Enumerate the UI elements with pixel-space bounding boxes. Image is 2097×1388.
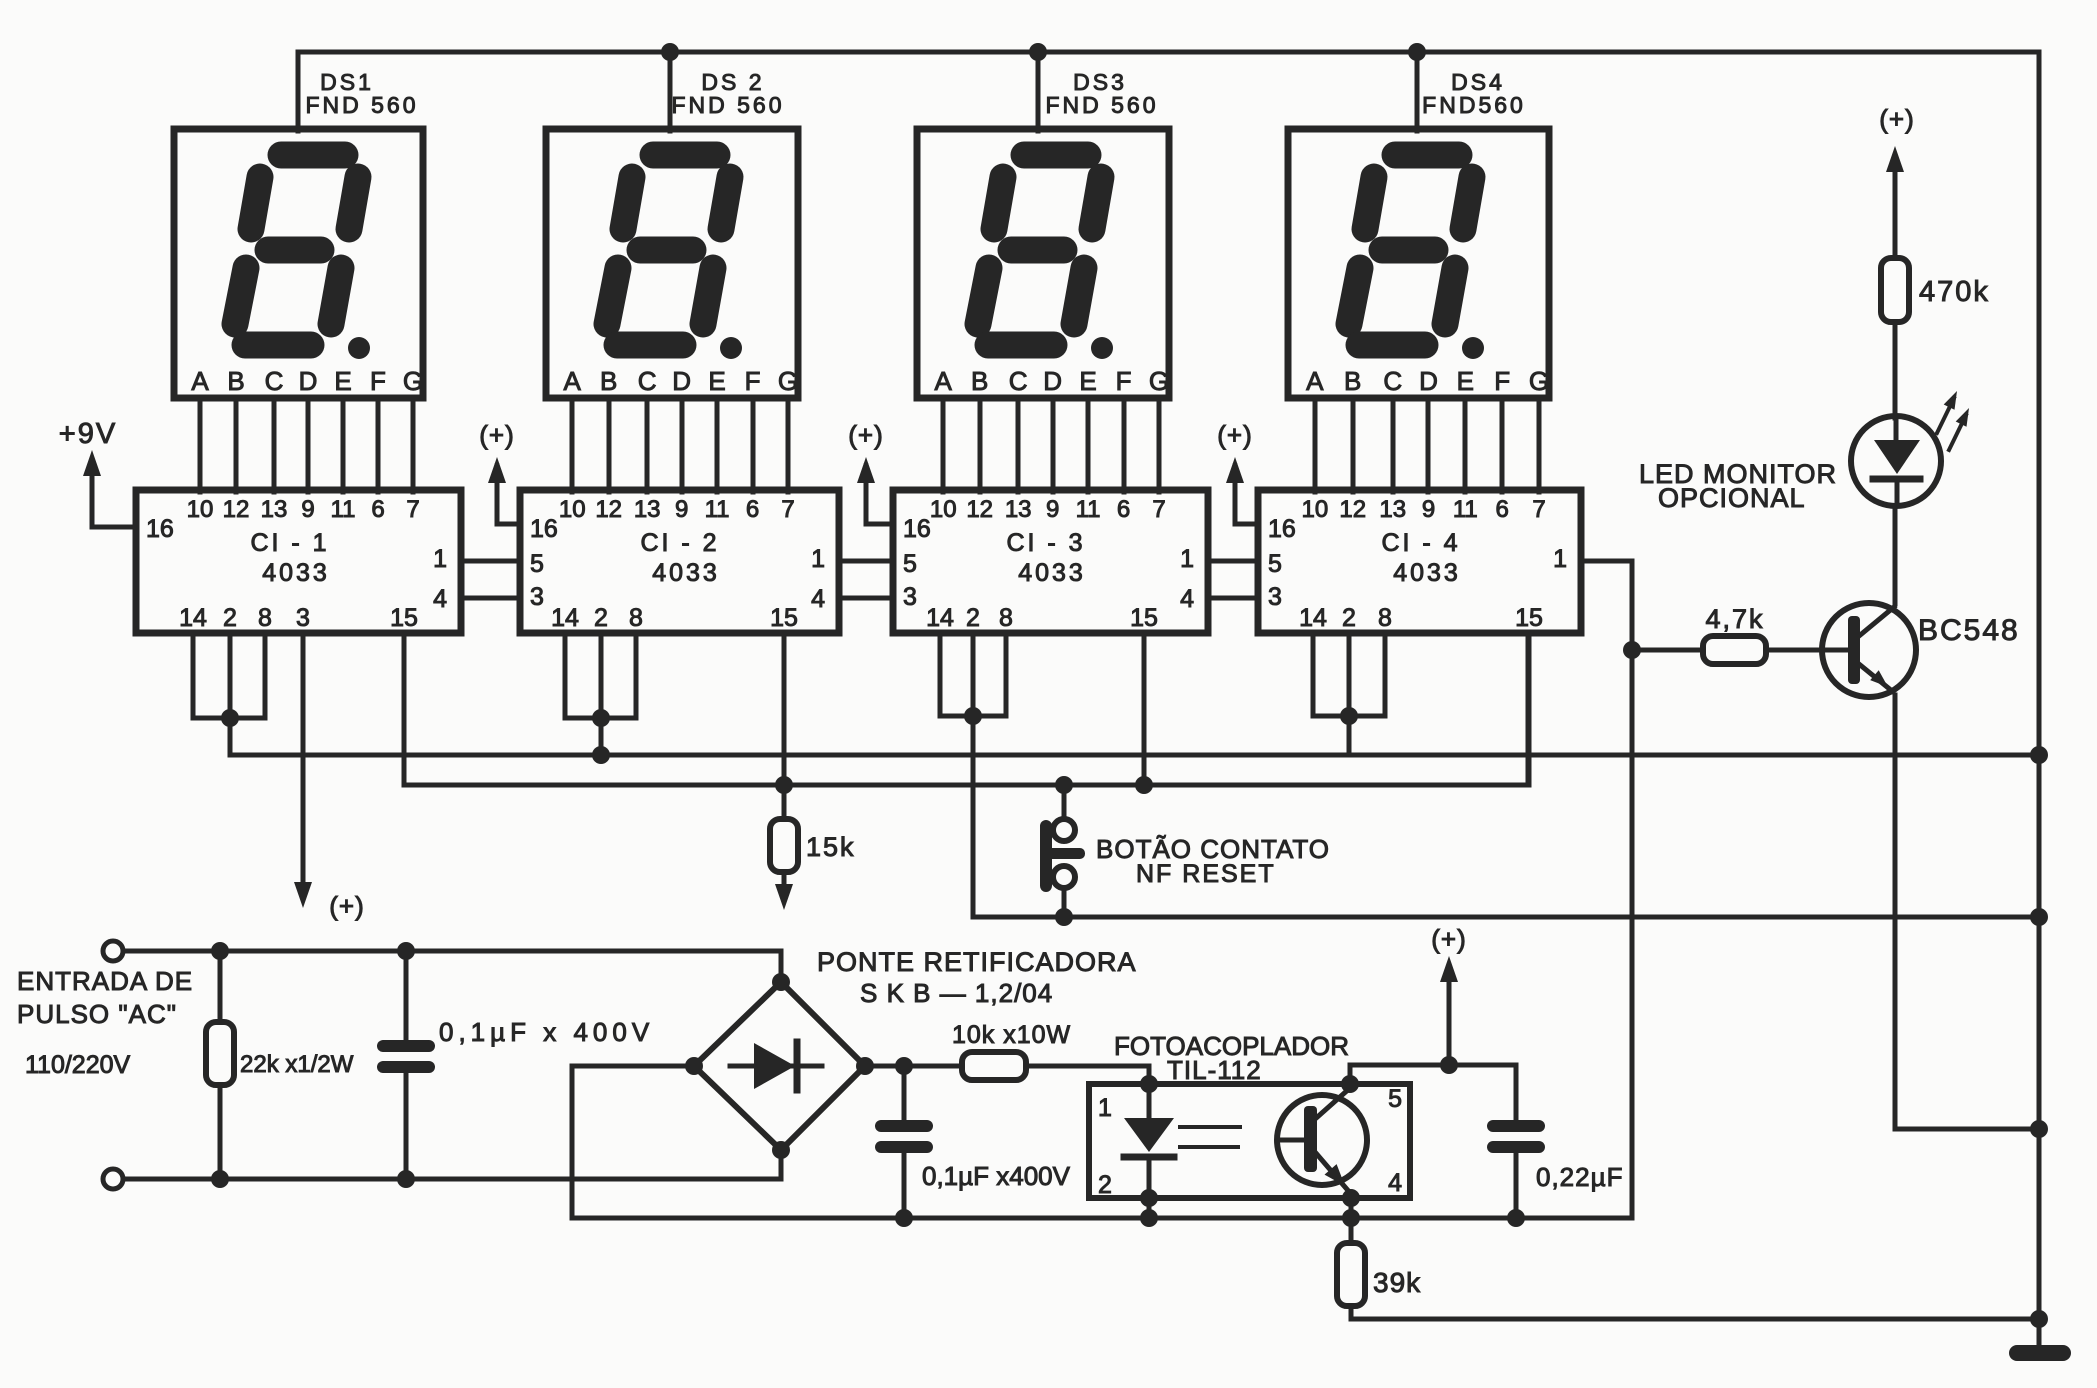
svg-text:1: 1 — [1098, 1094, 1112, 1122]
node CI-2 pin15 on reset bus — [775, 776, 793, 794]
display DS3 segment pin letters A-G — [935, 366, 1170, 396]
wire top supply rail — [298, 50, 2039, 55]
transistor BC548 circle — [1822, 603, 1916, 697]
arrow (+) up at opto — [1440, 956, 1458, 982]
svg-text:11: 11 — [705, 496, 730, 523]
svg-text:11: 11 — [1453, 496, 1478, 523]
IC CI-2 top pin numbers — [559, 496, 795, 523]
wire C3 bottom stem — [1514, 1153, 1519, 1218]
svg-text:5: 5 — [1268, 550, 1282, 578]
svg-text:16: 16 — [146, 515, 174, 543]
svg-text:BC548: BC548 — [1918, 614, 2020, 647]
svg-text:2: 2 — [1098, 1171, 1112, 1199]
svg-text:B: B — [600, 366, 617, 396]
wire CI-3 pin14 down — [938, 633, 943, 716]
bridge rectifier SKB diamond — [694, 982, 865, 1150]
svg-text:E: E — [334, 366, 351, 396]
node (+) tap — [1440, 1056, 1458, 1074]
svg-text:4: 4 — [433, 585, 447, 613]
display DS1 seven-segment digit 8 with dp — [235, 155, 358, 345]
svg-text:8: 8 — [1378, 604, 1392, 632]
wire 4,7k to base — [1766, 648, 1849, 653]
svg-text:2: 2 — [966, 604, 980, 632]
node opto collector exit pin5 — [1341, 1075, 1359, 1093]
node junction DS2 stub — [661, 43, 679, 61]
svg-text:NF RESET: NF RESET — [1136, 860, 1276, 888]
pushbutton plunger bar — [1040, 820, 1052, 892]
node C2 bottom on lower rail — [895, 1209, 913, 1227]
svg-text:A: A — [935, 366, 953, 396]
arrow 15k down — [775, 884, 793, 910]
arrow (+) up — [857, 457, 875, 483]
node CI-3 pins 14-2-8 junction — [964, 707, 982, 725]
svg-text:10k x10W: 10k x10W — [952, 1021, 1071, 1049]
svg-text:7: 7 — [1532, 496, 1545, 523]
node 4,7k tap — [1623, 641, 1641, 659]
svg-text:B: B — [1344, 366, 1361, 396]
node CI-4 pins 14-2-8 junction — [1340, 707, 1358, 725]
wire BC548 collector up to LED — [1893, 506, 1898, 604]
node emitter net right rail — [2030, 1120, 2048, 1138]
svg-text:D: D — [299, 366, 318, 396]
wire pin4 to pin3 interconnect — [839, 596, 893, 601]
wire 15k top stem — [782, 785, 787, 819]
display DS4 FND560 box — [1288, 129, 1549, 398]
svg-text:B: B — [227, 366, 244, 396]
node opto emitter on lower rail — [1342, 1209, 1360, 1227]
wire pin4 to pin3 interconnect — [461, 596, 520, 601]
led monitor circle — [1851, 416, 1941, 506]
node opto pin 1 — [1140, 1075, 1158, 1093]
svg-text:A: A — [1306, 366, 1324, 396]
svg-text:OPCIONAL: OPCIONAL — [1658, 483, 1806, 513]
svg-text:14: 14 — [926, 604, 954, 632]
bridge diode triangle — [754, 1043, 795, 1089]
wire 10k to opto pin1 — [1026, 1066, 1149, 1083]
node 22k top — [211, 942, 229, 960]
display DS4 seven-segment digit 8 with dp — [1349, 155, 1472, 345]
wire pin1 to pin5 interconnect — [839, 559, 893, 564]
display DS3 segment wires to IC — [943, 398, 1159, 492]
display DS1 segment wires to IC — [200, 398, 413, 492]
wire C1 bottom stem — [404, 1073, 409, 1179]
svg-text:D: D — [1419, 366, 1438, 396]
svg-text:PONTE RETIFICADORA: PONTE RETIFICADORA — [817, 947, 1137, 977]
svg-text:4033: 4033 — [262, 559, 330, 587]
svg-text:39k: 39k — [1373, 1267, 1421, 1298]
svg-text:12: 12 — [223, 496, 250, 523]
display DS4 segment pin letters A-G — [1306, 366, 1549, 396]
svg-text:9: 9 — [301, 496, 314, 523]
svg-text:G: G — [1529, 366, 1549, 396]
wire stub to DS2 — [668, 52, 673, 131]
wire bottom reset return — [973, 915, 2039, 920]
led triangle — [1874, 440, 1920, 474]
led anode stem — [1894, 416, 1899, 442]
opto phototransistor base lead — [1278, 1138, 1304, 1143]
svg-text:15: 15 — [390, 604, 418, 632]
wire 39k bottom stem — [1349, 1306, 1354, 1319]
wire 470k to (+) — [1893, 172, 1898, 258]
node cap C1 bottom — [397, 1170, 415, 1188]
wire pin4 to pin3 interconnect — [1208, 596, 1258, 601]
wire CI-4 pin1 out and down — [1581, 561, 1632, 1218]
svg-text:6: 6 — [1495, 496, 1508, 523]
wire CI-3 pins 14-8 link — [940, 714, 1006, 719]
svg-text:13: 13 — [1379, 496, 1406, 523]
led light arrow 1 — [1937, 398, 1954, 433]
node junction DS3 stub — [1029, 43, 1047, 61]
svg-text:FND 560: FND 560 — [671, 92, 784, 118]
bridge diode cathode bar — [794, 1042, 801, 1090]
capacitor C3 0,22uF plates — [1487, 1120, 1545, 1132]
pushbutton top contact — [1053, 819, 1075, 841]
svg-text:10: 10 — [1301, 496, 1328, 523]
display DS1 FND560 box — [174, 129, 423, 398]
svg-text:16: 16 — [1268, 515, 1296, 543]
node reset button tap on bus B — [1055, 776, 1073, 794]
node ground run right rail — [2030, 1310, 2048, 1328]
svg-text:E: E — [708, 366, 725, 396]
wire opto pin2 to lower rail — [1147, 1198, 1152, 1218]
resistor 4,7k body — [1703, 636, 1766, 664]
svg-text:14: 14 — [179, 604, 207, 632]
opto phototransistor emitter — [1315, 1152, 1351, 1194]
node reset return right rail junction — [2030, 908, 2048, 926]
wire 15k bottom stem — [782, 872, 787, 884]
ground symbol — [2009, 1345, 2071, 1361]
node reset button bottom on return wire — [1055, 908, 1073, 926]
svg-text:16: 16 — [530, 515, 558, 543]
IC CI-4 top pin numbers — [1301, 496, 1545, 523]
node opto pin2 on lower rail — [1140, 1209, 1158, 1227]
wire ground run — [1351, 1317, 2039, 1322]
svg-text:5: 5 — [530, 550, 544, 578]
svg-text:15: 15 — [770, 604, 798, 632]
svg-text:PULSO "AC": PULSO "AC" — [17, 999, 177, 1029]
arrow CI-1 pin3 down (+) — [294, 882, 312, 908]
node bridge left — [685, 1057, 703, 1075]
svg-text:B: B — [971, 366, 988, 396]
svg-text:16: 16 — [903, 515, 931, 543]
svg-text:C: C — [638, 366, 657, 396]
pushbutton actuator bar — [1040, 848, 1085, 859]
display DS4 segment wires to IC — [1315, 398, 1539, 492]
svg-text:2: 2 — [1342, 604, 1356, 632]
svg-text:4033: 4033 — [1018, 559, 1086, 587]
wire LED to 470k — [1893, 322, 1898, 418]
IC CI-4 4033 box — [1258, 490, 1581, 633]
svg-text:13: 13 — [261, 496, 288, 523]
svg-text:FND 560: FND 560 — [1045, 92, 1158, 118]
wire input bottom to bridge — [123, 1150, 781, 1179]
svg-text:6: 6 — [746, 496, 759, 523]
svg-text:3: 3 — [296, 604, 310, 632]
svg-text:22k x1/2W: 22k x1/2W — [240, 1051, 354, 1078]
IC CI-4 bottom pin numbers — [1299, 604, 1543, 632]
resistor 15k body — [770, 819, 798, 872]
wire CI-3 pin2 down to bottom wire — [971, 633, 976, 917]
IC CI-3 bottom pin numbers — [926, 604, 1158, 632]
wire C1 top stem — [404, 951, 409, 1040]
node CI-3 pin15 on reset bus — [1135, 776, 1153, 794]
display DS3 seven-segment digit 8 with dp — [978, 155, 1101, 345]
svg-text:G: G — [1149, 366, 1169, 396]
wire (+) to pin 16 — [497, 466, 520, 524]
arrow (+) top right — [1886, 146, 1904, 172]
wire reset button top stem — [1062, 785, 1067, 819]
svg-text:E: E — [1079, 366, 1096, 396]
IC CI-3 4033 box — [893, 490, 1208, 633]
wire CI-4 pin15 down to reset bus — [1528, 633, 1529, 785]
display DS2 FND560 box — [546, 129, 798, 398]
wire CI-3 pin8 down — [1004, 633, 1009, 716]
wire CI-2 pin2 down to bus — [599, 633, 604, 755]
wire bus A carry — [230, 753, 2039, 758]
svg-text:110/220V: 110/220V — [25, 1051, 131, 1079]
wire emitter to 39k — [1349, 1198, 1354, 1243]
svg-text:4,7k: 4,7k — [1705, 604, 1764, 634]
svg-text:5: 5 — [1388, 1085, 1402, 1113]
svg-text:(+): (+) — [1217, 420, 1253, 450]
svg-text:ENTRADA DE: ENTRADA DE — [17, 966, 193, 996]
IC CI-1 top pin numbers — [187, 496, 420, 523]
svg-text:5: 5 — [903, 550, 917, 578]
svg-text:0,1µF x400V: 0,1µF x400V — [922, 1161, 1071, 1191]
wire opto collector to cap C3 — [1350, 1065, 1516, 1120]
wire pin1 to pin5 interconnect — [461, 559, 520, 564]
wire bridge right to 10k — [865, 1064, 962, 1069]
opto phototransistor circle — [1277, 1095, 1367, 1185]
resistor 470k body — [1881, 258, 1909, 322]
wire CI-1 pins 14-8 link — [193, 716, 265, 721]
IC CI-1 bottom pin numbers — [179, 604, 418, 632]
display DS2 segment wires to IC — [572, 398, 788, 492]
transistor BC548 emitter arrow — [1870, 670, 1888, 687]
svg-text:1: 1 — [1180, 545, 1194, 573]
wire (+) to pin 16 — [866, 466, 893, 524]
svg-text:CI - 2: CI - 2 — [640, 529, 719, 557]
svg-text:S K B — 1,2/04: S K B — 1,2/04 — [860, 978, 1053, 1008]
svg-text:C: C — [1009, 366, 1028, 396]
wire CI-2 pin14 down — [563, 633, 568, 718]
arrow (+) up — [1226, 457, 1244, 483]
terminal input AC bottom — [103, 1169, 123, 1189]
svg-text:G: G — [778, 366, 798, 396]
svg-text:FND 560: FND 560 — [305, 92, 418, 118]
wire (+) to pin 16 — [1235, 466, 1258, 524]
svg-text:E: E — [1457, 366, 1474, 396]
svg-text:A: A — [564, 366, 582, 396]
wire C2 top stem — [902, 1066, 907, 1120]
svg-text:A: A — [191, 366, 209, 396]
node opto pin 2 — [1140, 1189, 1158, 1207]
svg-text:2: 2 — [223, 604, 237, 632]
svg-text:6: 6 — [371, 496, 384, 523]
node bridge bottom — [772, 1141, 790, 1159]
node CI-2 pins 14-2-8 junction — [592, 709, 610, 727]
opto LED triangle — [1124, 1118, 1174, 1152]
svg-text:(+): (+) — [1879, 104, 1915, 134]
svg-text:CI - 1: CI - 1 — [250, 529, 329, 557]
svg-text:TIL-112: TIL-112 — [1167, 1055, 1262, 1085]
svg-text:D: D — [1043, 366, 1062, 396]
svg-text:15: 15 — [1515, 604, 1543, 632]
wire stub to DS1 — [296, 52, 301, 131]
node opto emitter exit pin4 — [1342, 1189, 1360, 1207]
svg-text:3: 3 — [903, 583, 917, 611]
wire +9V to CI-1 pin 16 — [92, 462, 136, 527]
node bridge top — [772, 973, 790, 991]
svg-text:9: 9 — [1422, 496, 1435, 523]
wire CI-1 pin2 down to bus — [228, 633, 233, 755]
svg-text:F: F — [1116, 366, 1132, 396]
wire CI-2 pin8 down — [634, 633, 639, 718]
svg-text:10: 10 — [559, 496, 586, 523]
wire bus B reset — [404, 633, 1528, 785]
svg-text:10: 10 — [930, 496, 957, 523]
svg-text:D: D — [672, 366, 691, 396]
svg-text:(+): (+) — [479, 420, 515, 450]
wire C2 bottom stem — [902, 1153, 907, 1218]
svg-text:4: 4 — [1180, 585, 1194, 613]
wire CI-4 pin2 down to bus A — [1347, 633, 1352, 755]
svg-text:1: 1 — [1553, 545, 1567, 573]
svg-text:6: 6 — [1117, 496, 1130, 523]
svg-text:10: 10 — [187, 496, 214, 523]
terminal input AC top — [103, 941, 123, 961]
svg-text:3: 3 — [1268, 583, 1282, 611]
svg-text:CI - 4: CI - 4 — [1381, 529, 1460, 557]
wire CI-2 pins 14-8 link — [565, 716, 636, 721]
svg-text:C: C — [1383, 366, 1402, 396]
svg-text:(+): (+) — [1431, 924, 1467, 954]
wire (+) stem — [1447, 976, 1452, 1065]
led cathode bar — [1873, 476, 1920, 483]
wire CI-2 pin15 down to reset bus — [782, 633, 787, 785]
wire BC548 emitter down and right — [1895, 695, 2039, 1129]
node CI-2 pin2 on bus A — [592, 746, 610, 764]
display DS1 segment pin letters A-G — [191, 366, 423, 396]
pushbutton bottom contact — [1053, 866, 1075, 888]
wire CI-4 pins 14-8 link — [1313, 714, 1385, 719]
node bus A right rail junction — [2030, 746, 2048, 764]
svg-text:(+): (+) — [329, 891, 365, 921]
resistor 10k body — [962, 1052, 1026, 1080]
IC CI-1 4033 box — [136, 490, 461, 633]
svg-text:CI - 3: CI - 3 — [1006, 529, 1085, 557]
wire input top to bridge — [123, 951, 781, 982]
bridge diode wire — [730, 1064, 822, 1069]
svg-text:14: 14 — [551, 604, 579, 632]
node bridge right — [856, 1057, 874, 1075]
wire to 4,7k — [1632, 648, 1703, 653]
wire stub to DS4 — [1415, 52, 1420, 131]
wire stub to DS3 — [1036, 52, 1041, 131]
node 22k bottom — [211, 1170, 229, 1188]
wire 22k top stem — [218, 951, 223, 1022]
svg-text:11: 11 — [1076, 496, 1101, 523]
wire CI-4 pin14 down — [1311, 633, 1316, 716]
svg-text:1: 1 — [433, 545, 447, 573]
svg-text:2: 2 — [594, 604, 608, 632]
svg-text:13: 13 — [1005, 496, 1032, 523]
opto LED top stem — [1147, 1084, 1152, 1118]
resistor 39k body — [1337, 1243, 1365, 1306]
svg-text:F: F — [370, 366, 386, 396]
wire CI-1 pin3 down — [301, 633, 306, 882]
capacitor C1 0,1uF plates — [377, 1040, 435, 1052]
svg-text:12: 12 — [595, 496, 622, 523]
wire lower rail — [572, 1216, 1632, 1221]
wire CI-3 pin15 down to reset bus — [1142, 633, 1147, 785]
svg-text:4033: 4033 — [1393, 559, 1461, 587]
display DS2 segment pin letters A-G — [564, 366, 799, 396]
IC CI-2 bottom pin numbers — [551, 604, 798, 632]
IC CI-2 4033 box — [520, 490, 839, 633]
node junction DS4 stub — [1408, 43, 1426, 61]
svg-text:8: 8 — [629, 604, 643, 632]
svg-text:4: 4 — [1388, 1169, 1402, 1197]
svg-text:12: 12 — [966, 496, 993, 523]
node cap C1 top — [397, 942, 415, 960]
svg-text:7: 7 — [406, 496, 419, 523]
svg-text:9: 9 — [675, 496, 688, 523]
svg-text:3: 3 — [530, 583, 544, 611]
optocoupler TIL-112 box — [1089, 1084, 1410, 1198]
wire CI-4 pin8 down — [1383, 633, 1388, 716]
resistor 22k body — [206, 1022, 234, 1085]
wire CI-1 pin14 down — [191, 633, 196, 718]
led light arrow 2 — [1949, 415, 1966, 450]
opto coupling lines — [1180, 1125, 1240, 1129]
svg-text:13: 13 — [634, 496, 661, 523]
display DS2 seven-segment digit 8 with dp — [607, 155, 730, 345]
opto LED cathode bar — [1124, 1154, 1174, 1161]
transistor BC548 collector — [1859, 607, 1894, 636]
svg-text:FND560: FND560 — [1422, 92, 1526, 118]
led cathode stem — [1895, 479, 1900, 505]
svg-text:1: 1 — [811, 545, 825, 573]
svg-text:7: 7 — [781, 496, 794, 523]
svg-text:(+): (+) — [848, 420, 884, 450]
svg-text:C: C — [265, 366, 284, 396]
svg-text:470k: 470k — [1919, 276, 1990, 308]
svg-text:0,1µF x 400V: 0,1µF x 400V — [439, 1017, 654, 1047]
svg-text:F: F — [1494, 366, 1510, 396]
opto phototransistor emitter arrow — [1325, 1164, 1346, 1186]
display DS3 FND560 box — [917, 129, 1169, 398]
svg-text:7: 7 — [1152, 496, 1165, 523]
IC CI-3 top pin numbers — [930, 496, 1166, 523]
svg-text:9: 9 — [1046, 496, 1059, 523]
node CI-1 pins 14-2-8 junction — [221, 709, 239, 727]
svg-text:12: 12 — [1339, 496, 1366, 523]
transistor BC548 emitter — [1859, 664, 1892, 691]
svg-text:F: F — [745, 366, 761, 396]
svg-text:15k: 15k — [806, 832, 856, 862]
opto LED bottom stem — [1147, 1157, 1152, 1198]
opto phototransistor base bar — [1304, 1106, 1317, 1172]
svg-text:15: 15 — [1130, 604, 1158, 632]
node C3 bottom on lower rail — [1507, 1209, 1525, 1227]
svg-text:4033: 4033 — [652, 559, 720, 587]
wire right side rail — [2037, 52, 2042, 1345]
arrow +9V up — [83, 450, 101, 476]
wire pin1 to pin5 interconnect — [1208, 559, 1258, 564]
wire reset button bottom stem — [1062, 888, 1067, 917]
arrow (+) up — [488, 457, 506, 483]
